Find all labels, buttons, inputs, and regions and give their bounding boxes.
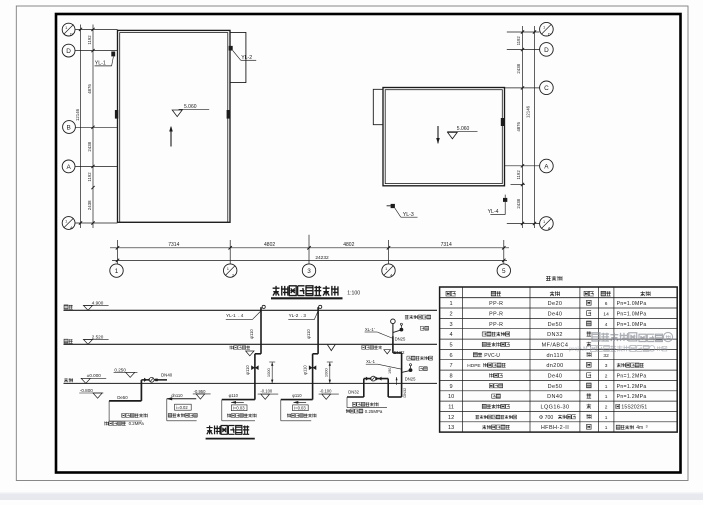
plan title underline	[271, 297, 343, 299]
2F note near riser (hanzi)	[362, 346, 382, 350]
svg-text:4.900: 4.900	[92, 300, 104, 305]
svg-text:A: A	[548, 226, 551, 231]
bottom dimension line 1	[110, 247, 509, 249]
svg-text:12146: 12146	[75, 108, 80, 121]
roof slope arrow right building	[437, 126, 439, 143]
rain leader marker YL-2	[229, 46, 233, 51]
valve 2 on loop	[376, 377, 382, 381]
rain leader marker YL-4	[503, 198, 507, 202]
svg-text:LQG16-30: LQG16-30	[541, 405, 570, 411]
svg-text:B: B	[66, 125, 70, 132]
svg-text:dn200: dn200	[546, 363, 563, 369]
inlet bracket under loop	[346, 397, 348, 408]
roof funnel symbol at 2F	[327, 345, 335, 351]
text vacuum breaker (hanzi)	[407, 356, 433, 360]
svg-text:-0.100: -0.100	[320, 389, 333, 394]
floor label roof (hanzi)	[64, 305, 73, 309]
svg-text:D: D	[548, 31, 551, 36]
axis circle 1	[110, 264, 123, 277]
valve on supply	[144, 378, 150, 382]
fitting square on supply	[155, 379, 158, 382]
svg-text:1192: 1192	[516, 36, 521, 46]
svg-text:2.520: 2.520	[92, 335, 104, 340]
axis circle 1/3	[224, 264, 237, 277]
svg-text:YL-1 . 4: YL-1 . 4	[226, 313, 244, 318]
svg-text:De20: De20	[548, 301, 563, 307]
svg-text:i=0.03: i=0.03	[294, 406, 306, 411]
hydrant branch lower	[402, 371, 410, 373]
grey watermark line 2	[569, 346, 667, 353]
drain3 bracket	[280, 400, 282, 421]
wall column nub right building	[501, 118, 504, 126]
left axis circle 1/D	[62, 23, 75, 36]
small dim arrow left of riser	[396, 377, 398, 385]
svg-text:MF/ABC4: MF/ABC4	[542, 343, 569, 349]
svg-text:4: 4	[605, 322, 608, 328]
svg-text:6: 6	[605, 301, 608, 307]
svg-text:32: 32	[603, 353, 609, 359]
svg-text:DN32: DN32	[547, 332, 563, 338]
dim tick at x=230.2	[229, 246, 232, 249]
text light fire hose reel (hanzi)	[405, 315, 431, 319]
water meter loop inlet	[347, 396, 364, 398]
fire riser upper segment	[392, 336, 394, 353]
water meter on supply	[149, 377, 154, 382]
svg-text:10: 10	[448, 394, 454, 400]
fire riser jog at 2F	[393, 352, 402, 354]
svg-text:1: 1	[450, 301, 453, 307]
svg-text:4802: 4802	[264, 242, 275, 248]
text: inlet pressure 0.2MPa (hanzi+latin)	[104, 421, 125, 425]
floor label 1F (hanzi)	[64, 378, 73, 382]
svg-text:-0.100: -0.100	[260, 389, 273, 394]
drain1 bracket	[166, 399, 168, 421]
svg-text:Pn=1.2MPa: Pn=1.2MPa	[617, 374, 647, 380]
rain drain under YL-2 (thick)	[281, 399, 313, 401]
rain leader marker YL-1	[111, 52, 115, 57]
svg-text:A: A	[544, 163, 549, 170]
plan title: roof drainage plan (hanzi)	[273, 286, 338, 296]
sewer drain 1 line	[167, 398, 196, 400]
bottom grey strip	[0, 494, 703, 501]
inlet bracket lines	[108, 401, 110, 421]
svg-text:De40: De40	[548, 312, 563, 318]
svg-text:DN32: DN32	[348, 390, 359, 395]
text inlet pressure 0.25MPa (hanzi+latin)	[346, 409, 363, 413]
svg-text:1: 1	[605, 394, 608, 400]
rain leader marker YL-3	[391, 204, 395, 208]
axis circle 5	[497, 264, 510, 277]
svg-text:2438: 2438	[516, 63, 521, 73]
text: to outdoor storm manhole (hanzi)	[287, 414, 316, 418]
left axis circle A	[62, 160, 75, 173]
svg-text:4802: 4802	[343, 242, 354, 248]
right dim vline segments	[522, 26, 524, 228]
svg-text:24232: 24232	[315, 255, 329, 261]
svg-text:De50: De50	[548, 384, 563, 390]
svg-text:PP-R: PP-R	[489, 312, 503, 318]
svg-text:XL-1: XL-1	[366, 359, 376, 364]
valve on loop	[366, 377, 372, 381]
right dim vline total	[534, 26, 536, 228]
fire riser lower segment	[401, 353, 403, 397]
svg-text:Pn=1.0MPa: Pn=1.0MPa	[617, 312, 647, 318]
svg-text:DN32: DN32	[403, 388, 407, 398]
loop right down segment	[387, 379, 389, 397]
svg-text:±0.000: ±0.000	[87, 373, 101, 378]
hydrant branch upper	[393, 330, 400, 332]
material table title (hanzi)	[546, 276, 562, 281]
svg-text:1: 1	[605, 415, 608, 421]
svg-text:DN25: DN25	[405, 376, 416, 381]
svg-text:i=0.03: i=0.03	[233, 406, 245, 411]
right axis circle 1/A	[540, 217, 554, 231]
flow arrow drain3	[294, 401, 307, 403]
meter on loop	[371, 376, 376, 381]
svg-text:HDPE: HDPE	[467, 363, 480, 369]
right axis circle C	[540, 81, 554, 95]
dim tick at x=117.5	[116, 246, 119, 249]
svg-text:2: 2	[605, 405, 608, 411]
drain2 bracket	[221, 400, 223, 421]
svg-text:3: 3	[450, 322, 453, 328]
svg-text:4: 4	[450, 332, 453, 338]
text: to outdoor storm manhole (hanzi)	[227, 414, 256, 418]
floor line 2F	[64, 343, 438, 345]
text to municipal water main (hanzi)	[352, 402, 378, 406]
svg-text:1: 1	[605, 384, 608, 390]
left axis leader lines	[75, 28, 117, 30]
svg-text:D: D	[66, 48, 71, 55]
valve on YL-2 leader	[309, 365, 316, 370]
svg-text:1192: 1192	[516, 170, 521, 180]
svg-text:1000: 1000	[324, 367, 329, 377]
text: city water main (hanzi)	[122, 413, 148, 417]
svg-text:2438: 2438	[87, 200, 92, 210]
svg-text:YL-4: YL-4	[488, 209, 499, 215]
text: to outdoor sewer manhole (hanzi)	[168, 413, 197, 417]
grey watermark line 1	[592, 332, 673, 341]
bottom dimension line 2 (total)	[112, 259, 507, 261]
svg-text:0.2MPa: 0.2MPa	[129, 421, 145, 426]
svg-text:3: 3	[646, 424, 648, 428]
2F gutter note at YL-1 (hanzi)	[230, 346, 250, 350]
svg-text:De50: De50	[117, 395, 128, 400]
material table column lines	[462, 287, 464, 432]
svg-text:2438: 2438	[87, 141, 92, 151]
left building roof bump-out top-right	[230, 32, 246, 82]
svg-text:14: 14	[603, 312, 609, 318]
wall column nub right wall	[227, 110, 230, 119]
svg-text:3: 3	[307, 268, 311, 275]
svg-text:C: C	[544, 85, 549, 92]
svg-text:φ110: φ110	[292, 393, 302, 398]
svg-text:5.060: 5.060	[184, 104, 197, 110]
svg-text:9: 9	[450, 384, 453, 390]
svg-text:7314: 7314	[168, 242, 179, 248]
slope box i=0.03 drain2	[231, 405, 247, 411]
svg-text:Φ 700: Φ 700	[539, 415, 553, 421]
dim 1000 at YL-2	[329, 362, 331, 383]
dim tick at x=388.5	[387, 246, 390, 249]
svg-text:15S202/51: 15S202/51	[621, 405, 647, 411]
loop top segment	[364, 378, 388, 380]
right axis leader lines	[505, 87, 540, 89]
right axis circle D	[540, 43, 554, 57]
svg-text:6: 6	[450, 353, 453, 359]
svg-text:12: 12	[448, 415, 454, 421]
left dim vline total	[80, 25, 82, 229]
svg-text:DN40: DN40	[547, 394, 563, 400]
flow arrow drain2	[231, 401, 244, 403]
svg-text:0.250: 0.250	[114, 367, 126, 372]
svg-text:7314: 7314	[441, 242, 452, 248]
svg-text:3: 3	[605, 363, 608, 369]
svg-text:PP-R: PP-R	[489, 301, 503, 307]
vent cap on fire riser	[391, 319, 396, 324]
valve on YL-1 leader	[251, 365, 258, 370]
svg-text:De40: De40	[548, 374, 563, 380]
right building outer wall	[383, 88, 505, 186]
axis extension lines bottom	[117, 240, 119, 264]
dim tick at x=503.8	[502, 246, 505, 249]
svg-text:2: 2	[450, 312, 453, 318]
svg-text:4876: 4876	[516, 122, 521, 132]
svg-text:5.060: 5.060	[457, 126, 470, 132]
svg-text:1:100: 1:100	[347, 291, 360, 297]
left axis circle D	[62, 44, 75, 57]
svg-text:Pn=1.0MPa: Pn=1.0MPa	[617, 301, 647, 307]
svg-text:190: 190	[388, 368, 392, 374]
svg-text:7: 7	[450, 363, 453, 369]
svg-text:1000: 1000	[266, 367, 271, 377]
svg-text:φ110: φ110	[306, 329, 311, 339]
right axis circle 1/D	[540, 22, 554, 36]
right building inner wall line	[385, 90, 502, 184]
svg-text:Pn=1.0MPa: Pn=1.0MPa	[617, 322, 647, 328]
svg-text:12146: 12146	[526, 105, 531, 118]
svg-text:1: 1	[115, 268, 119, 275]
svg-text:A: A	[66, 164, 71, 171]
svg-text:Pn=1.2MPa: Pn=1.2MPa	[617, 384, 647, 390]
svg-text:11: 11	[448, 405, 454, 411]
svg-text:dn110: dn110	[171, 393, 183, 398]
left axis circle B	[63, 121, 76, 134]
svg-text:D: D	[544, 47, 549, 54]
table header texts (hanzi)	[446, 291, 456, 296]
svg-text:-0.800: -0.800	[80, 388, 93, 393]
material table outer frame	[440, 287, 678, 432]
extra tick at building bottom level	[511, 184, 526, 186]
rain drain under YL-1 (thick)	[222, 399, 255, 401]
svg-text:8: 8	[450, 374, 453, 380]
water supply riser pipe (thick)	[140, 380, 142, 401]
svg-text:φ110: φ110	[303, 365, 308, 375]
svg-text:PVC-U: PVC-U	[484, 353, 500, 359]
svg-text:5: 5	[450, 343, 453, 349]
svg-text:dn110: dn110	[547, 353, 564, 359]
svg-text:1192: 1192	[87, 35, 92, 45]
text ditto upper (hanzi)	[420, 326, 428, 330]
axis circle 1/4	[382, 264, 395, 277]
svg-text:φ110: φ110	[229, 393, 239, 398]
svg-text:DN25: DN25	[395, 337, 406, 342]
rain leader pipe YL-2/3 (schematic)	[319, 305, 322, 308]
svg-text:proje.M: proje.M	[569, 346, 587, 352]
material table row lines	[440, 307, 678, 309]
svg-text:1192: 1192	[87, 172, 92, 182]
svg-text:DN40: DN40	[161, 372, 173, 377]
slope box i=0.03 drain3	[293, 405, 309, 411]
schematic title underline	[206, 438, 255, 440]
loop bottom segment	[388, 396, 401, 398]
right building bump-out top-left	[373, 89, 383, 124]
svg-text:13: 13	[448, 425, 454, 431]
loop left up segment	[363, 379, 365, 397]
svg-text:D: D	[70, 32, 73, 37]
left building inner wall line	[120, 33, 228, 223]
floor line 1F	[64, 382, 438, 384]
right axis circle A	[540, 159, 554, 173]
schematic title (hanzi)	[207, 425, 250, 434]
svg-text:2: 2	[605, 374, 608, 380]
svg-text:5: 5	[502, 268, 506, 275]
svg-text:-0.950: -0.950	[194, 389, 207, 394]
svg-text:4m: 4m	[636, 425, 643, 431]
left building outer wall	[118, 30, 231, 222]
svg-text:φ110: φ110	[245, 365, 250, 375]
svg-text:2438: 2438	[516, 198, 521, 208]
svg-text:HFBH-2-II: HFBH-2-II	[541, 425, 569, 431]
dim tick at x=309.0	[307, 246, 310, 249]
svg-text:0.25MPa: 0.25MPa	[365, 409, 383, 414]
slope box i=0.02 drain1	[175, 404, 192, 410]
floor line roof	[64, 309, 438, 311]
left axis circle 1/A	[62, 217, 75, 230]
svg-text:4876: 4876	[87, 84, 92, 94]
svg-text:PP-R: PP-R	[489, 322, 503, 328]
svg-text:DN32: DN32	[394, 350, 405, 355]
rain leader pipe YL-1/4 (schematic)	[262, 305, 265, 308]
axis circle 3	[302, 264, 315, 277]
material table header line	[440, 297, 678, 299]
floor label 2F (hanzi)	[64, 339, 73, 343]
svg-text:Pn=1.2MPa: Pn=1.2MPa	[617, 394, 647, 400]
left dim vline segments	[92, 25, 94, 229]
svg-text:φ110: φ110	[249, 329, 254, 339]
text ditto lower (hanzi)	[419, 367, 427, 371]
roof slope arrow left building	[170, 127, 172, 147]
svg-text:YL-1: YL-1	[95, 60, 106, 66]
dim 1000 at YL-1	[271, 362, 273, 383]
svg-text:XL-1': XL-1'	[365, 327, 375, 332]
svg-text:i=0.02: i=0.02	[176, 405, 188, 410]
svg-text:De50: De50	[548, 322, 563, 328]
svg-text:YL-2 . 3: YL-2 . 3	[289, 313, 307, 318]
svg-text:A: A	[70, 225, 73, 230]
wall column nub left wall	[115, 110, 118, 119]
svg-text:1: 1	[605, 425, 608, 431]
